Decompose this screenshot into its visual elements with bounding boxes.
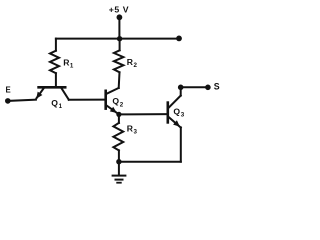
svg-text:2: 2 xyxy=(134,62,138,69)
ground xyxy=(113,162,126,183)
transistor Q1 xyxy=(36,87,69,99)
transistor Q3 xyxy=(168,96,181,128)
wire node C to Q3 emitter riser xyxy=(119,161,181,163)
wire Q3 emitter riser xyxy=(180,127,182,161)
resistor R3 xyxy=(113,123,123,150)
input E terminal dot xyxy=(5,98,11,104)
node D dot (Q3 collector / output) xyxy=(178,85,184,91)
wire R2 top lead xyxy=(119,39,121,51)
wire Q3 collector riser xyxy=(180,87,182,95)
wire E input to Q1 emitter xyxy=(8,100,36,101)
node B dot (Q2 emitter / R3 / Q3 base) xyxy=(116,112,121,117)
label Q1 xyxy=(51,98,62,110)
transistor Q2 xyxy=(106,88,119,115)
resistor R2 xyxy=(114,50,124,72)
wire +5V stem xyxy=(118,17,120,38)
label Q3 xyxy=(173,107,184,119)
wire output S xyxy=(181,86,208,88)
wire Q3 base from node B xyxy=(119,113,168,115)
output S terminal dot xyxy=(205,85,211,91)
wire Q1 collector to Q2 base xyxy=(69,99,106,101)
svg-text:S: S xyxy=(214,81,220,91)
wire R1 bottom lead to Q1 base xyxy=(55,73,57,86)
svg-text:3: 3 xyxy=(181,112,185,119)
svg-text:Q: Q xyxy=(173,107,180,117)
wire top supply rail xyxy=(56,38,179,40)
wire R3 top lead xyxy=(118,114,120,123)
label Q2 xyxy=(112,96,123,108)
node A junction dot (rail / R2) xyxy=(117,36,122,41)
svg-text:+5 V: +5 V xyxy=(109,5,130,15)
svg-text:E: E xyxy=(6,86,11,95)
label R3 xyxy=(127,123,138,135)
node rail right-end dot xyxy=(176,36,182,42)
svg-text:3: 3 xyxy=(134,129,138,136)
wire R1 top lead xyxy=(55,39,57,51)
wire R2 bottom lead to Q2 collector xyxy=(118,72,121,88)
svg-text:1: 1 xyxy=(59,103,63,110)
label R2 xyxy=(127,57,138,69)
svg-text:Q: Q xyxy=(112,96,119,106)
wire R3 bottom lead xyxy=(118,150,120,161)
node C dot (R3 / ground / Q3 emitter) xyxy=(116,159,121,164)
svg-text:2: 2 xyxy=(120,101,124,108)
resistor R1 xyxy=(50,51,59,73)
+5 V terminal dot xyxy=(117,14,123,20)
svg-text:1: 1 xyxy=(70,63,74,70)
svg-text:Q: Q xyxy=(51,98,58,108)
label R1 xyxy=(63,57,74,69)
